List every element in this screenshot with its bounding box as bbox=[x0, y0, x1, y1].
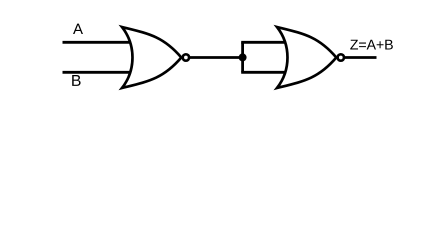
wire output Z bbox=[345, 56, 377, 59]
label A bbox=[73, 24, 83, 34]
label B bbox=[72, 75, 80, 86]
label Z=A+B bbox=[350, 40, 393, 50]
nor-gate G2 body bbox=[277, 27, 336, 88]
wire input A bbox=[63, 41, 132, 44]
nor-gate G2 output bubble bbox=[338, 54, 344, 60]
junction dot bbox=[239, 53, 247, 61]
nor-gate G1 output bubble bbox=[183, 54, 189, 60]
wire input B bbox=[63, 71, 132, 74]
wire G1 output to junction bbox=[190, 56, 243, 59]
wire junction to G2 bottom input bbox=[241, 71, 286, 74]
nor-gate G1 body bbox=[122, 27, 181, 88]
wire junction to G2 top input bbox=[241, 41, 286, 44]
wire junction vertical bbox=[241, 42, 244, 72]
